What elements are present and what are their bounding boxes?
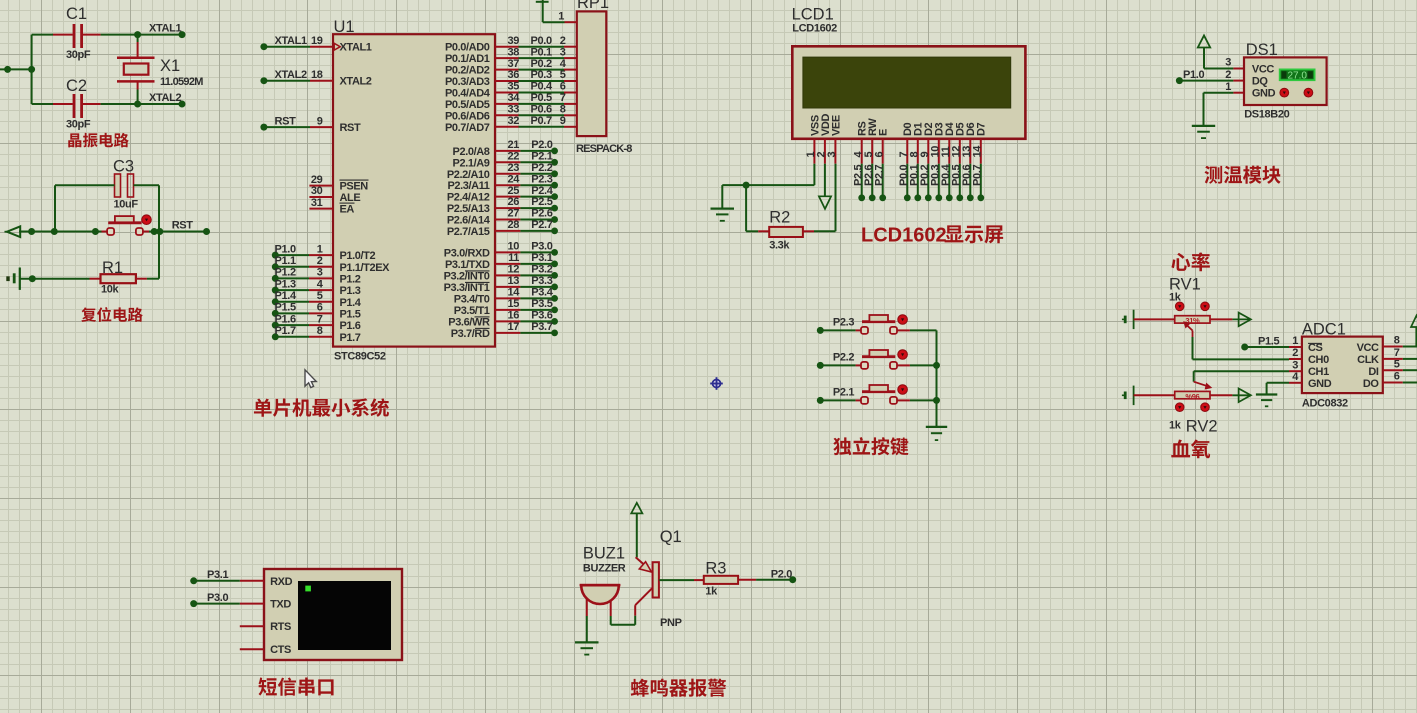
svg-text:P1.2: P1.2 <box>340 273 361 285</box>
svg-text:VCC: VCC <box>1252 63 1274 75</box>
svg-text:RESPACK-8: RESPACK-8 <box>576 143 632 155</box>
svg-text:30pF: 30pF <box>66 49 91 61</box>
svg-text:2: 2 <box>1225 69 1231 81</box>
svg-text:31: 31 <box>311 197 323 209</box>
svg-text:22: 22 <box>507 151 519 163</box>
svg-text:P1.1: P1.1 <box>275 255 296 267</box>
svg-text:P3.7/RD: P3.7/RD <box>451 328 490 340</box>
svg-text:GND: GND <box>1308 378 1332 390</box>
svg-text:BUZZER: BUZZER <box>583 563 626 575</box>
svg-text:P1.5: P1.5 <box>1258 335 1279 347</box>
svg-text:3: 3 <box>826 152 838 158</box>
svg-text:6: 6 <box>873 152 885 158</box>
svg-text:1k: 1k <box>1169 420 1182 432</box>
svg-text:P2.1/A9: P2.1/A9 <box>453 157 490 169</box>
svg-text:23: 23 <box>507 162 519 174</box>
svg-text:P2.2/A10: P2.2/A10 <box>447 169 490 181</box>
svg-text:P2.3: P2.3 <box>833 316 854 328</box>
svg-text:2: 2 <box>1292 347 1298 359</box>
svg-text:P2.6: P2.6 <box>531 208 552 220</box>
svg-text:6: 6 <box>560 81 566 93</box>
svg-text:P3.0/RXD: P3.0/RXD <box>444 247 490 259</box>
svg-text:P2.7: P2.7 <box>873 165 885 186</box>
svg-text:32: 32 <box>507 115 519 127</box>
svg-text:30pF: 30pF <box>66 119 91 131</box>
svg-text:26: 26 <box>507 196 519 208</box>
svg-text:P1.0/T2: P1.0/T2 <box>340 250 376 262</box>
svg-text:5: 5 <box>317 290 323 302</box>
svg-text:P0.3/AD3: P0.3/AD3 <box>445 76 490 88</box>
svg-text:25: 25 <box>507 185 519 197</box>
svg-text:P3.0: P3.0 <box>207 592 228 604</box>
svg-text:8: 8 <box>560 104 566 116</box>
svg-text:P3.2: P3.2 <box>531 264 552 276</box>
svg-text:P2.4/A12: P2.4/A12 <box>447 192 490 204</box>
svg-text:16: 16 <box>507 310 519 322</box>
svg-text:DI: DI <box>1368 366 1379 378</box>
svg-text:P0.0/AD0: P0.0/AD0 <box>445 42 490 54</box>
svg-text:28: 28 <box>507 219 519 231</box>
svg-text:10uF: 10uF <box>114 199 139 211</box>
svg-text:P1.7: P1.7 <box>340 332 361 344</box>
svg-text:XTAL2: XTAL2 <box>149 92 182 104</box>
svg-text:P3.0: P3.0 <box>531 241 552 253</box>
svg-text:6: 6 <box>317 302 323 314</box>
svg-text:37: 37 <box>507 58 519 70</box>
svg-text:P0.7: P0.7 <box>531 115 552 127</box>
svg-text:EA: EA <box>340 204 355 216</box>
svg-text:PSEN: PSEN <box>340 181 369 193</box>
svg-text:CTS: CTS <box>270 644 291 656</box>
svg-text:P2.7/A15: P2.7/A15 <box>447 226 490 238</box>
svg-text:13: 13 <box>507 275 519 287</box>
svg-text:P0.2: P0.2 <box>531 58 552 70</box>
svg-text:9: 9 <box>317 115 323 127</box>
svg-text:P0.7/AD7: P0.7/AD7 <box>445 122 490 134</box>
svg-text:34: 34 <box>507 92 520 104</box>
svg-text:P0.3: P0.3 <box>531 69 552 81</box>
svg-text:P0.1/AD1: P0.1/AD1 <box>445 53 490 65</box>
svg-text:E: E <box>878 129 890 136</box>
svg-text:P1.1/T2EX: P1.1/T2EX <box>340 262 391 274</box>
svg-text:XTAL1: XTAL1 <box>275 35 308 47</box>
svg-text:GND: GND <box>1252 88 1276 100</box>
svg-text:P2.1: P2.1 <box>531 151 552 163</box>
svg-text:P3.2/INT0: P3.2/INT0 <box>444 270 490 282</box>
svg-text:P1.7: P1.7 <box>275 325 296 337</box>
svg-text:P1.4: P1.4 <box>275 290 297 302</box>
svg-text:P1.3: P1.3 <box>275 278 296 290</box>
svg-text:R2: R2 <box>769 209 790 227</box>
svg-text:P2.5: P2.5 <box>531 196 552 208</box>
svg-text:3: 3 <box>1292 359 1298 371</box>
svg-text:XTAL1: XTAL1 <box>149 23 182 35</box>
svg-text:21: 21 <box>507 139 519 151</box>
svg-text:3: 3 <box>560 46 566 58</box>
svg-text:P2.2: P2.2 <box>531 162 552 174</box>
svg-text:5: 5 <box>1394 358 1400 370</box>
svg-text:P0.6: P0.6 <box>531 104 552 116</box>
svg-text:P0.6/AD6: P0.6/AD6 <box>445 110 490 122</box>
svg-text:P3.5: P3.5 <box>531 298 552 310</box>
svg-text:P3.1/TXD: P3.1/TXD <box>445 259 490 271</box>
svg-text:RST: RST <box>340 122 361 134</box>
svg-text:3.3k: 3.3k <box>769 240 790 252</box>
svg-text:8: 8 <box>317 325 323 337</box>
svg-text:P0.4/AD4: P0.4/AD4 <box>445 88 491 100</box>
svg-text:C3: C3 <box>113 158 134 176</box>
svg-text:C2: C2 <box>66 77 87 95</box>
svg-text:DS1: DS1 <box>1246 41 1278 59</box>
svg-text:11: 11 <box>508 252 519 264</box>
svg-text:P1.5: P1.5 <box>275 302 296 314</box>
svg-text:RTS: RTS <box>270 621 291 633</box>
svg-text:STC89C52: STC89C52 <box>334 351 386 363</box>
svg-text:1: 1 <box>558 11 564 23</box>
svg-text:P2.4: P2.4 <box>531 185 553 197</box>
svg-text:19: 19 <box>311 35 323 47</box>
svg-text:C1: C1 <box>66 5 87 23</box>
svg-text:P3.3/INT1: P3.3/INT1 <box>444 282 490 294</box>
svg-text:10k: 10k <box>101 284 120 296</box>
svg-text:P2.0/A8: P2.0/A8 <box>453 146 490 158</box>
svg-text:12: 12 <box>507 264 519 276</box>
svg-text:6: 6 <box>1394 371 1400 383</box>
svg-text:7: 7 <box>317 313 323 325</box>
svg-text:2: 2 <box>560 35 566 47</box>
svg-text:P2.6/A14: P2.6/A14 <box>447 215 491 227</box>
svg-text:P2.7: P2.7 <box>531 219 552 231</box>
svg-text:14: 14 <box>971 145 983 158</box>
svg-text:RXD: RXD <box>270 576 292 588</box>
svg-text:P2.2: P2.2 <box>833 351 854 363</box>
svg-text:1: 1 <box>1225 81 1231 93</box>
svg-text:1: 1 <box>1292 335 1298 347</box>
svg-text:DS18B20: DS18B20 <box>1244 109 1289 121</box>
svg-text:P0.0: P0.0 <box>531 35 552 47</box>
svg-text:P3.6/WR: P3.6/WR <box>448 316 490 328</box>
svg-text:35: 35 <box>507 81 519 93</box>
svg-text:P0.2/AD2: P0.2/AD2 <box>445 65 490 77</box>
svg-text:P1.2: P1.2 <box>275 267 296 279</box>
svg-text:P2.3/A11: P2.3/A11 <box>447 180 489 192</box>
svg-text:P1.0: P1.0 <box>1183 69 1204 81</box>
svg-text:RP1: RP1 <box>577 0 609 12</box>
svg-text:9: 9 <box>560 115 566 127</box>
svg-text:Q1: Q1 <box>660 528 682 546</box>
svg-text:TXD: TXD <box>270 599 291 611</box>
svg-text:XTAL2: XTAL2 <box>275 69 308 81</box>
svg-text:BUZ1: BUZ1 <box>583 545 625 563</box>
svg-text:PNP: PNP <box>660 617 682 629</box>
svg-text:LCD1: LCD1 <box>792 6 834 24</box>
svg-text:D7: D7 <box>976 122 988 136</box>
svg-text:P2.5/A13: P2.5/A13 <box>447 203 490 215</box>
svg-text:VEE: VEE <box>830 115 842 136</box>
svg-text:P3.1: P3.1 <box>531 252 552 264</box>
svg-text:P3.4: P3.4 <box>531 287 553 299</box>
svg-text:P0.4: P0.4 <box>531 81 553 93</box>
svg-text:R1: R1 <box>102 259 123 277</box>
svg-text:17: 17 <box>507 321 519 333</box>
svg-text:18: 18 <box>311 69 323 81</box>
svg-text:P1.6: P1.6 <box>275 313 296 325</box>
svg-text:P3.6: P3.6 <box>531 310 552 322</box>
svg-text:P3.7: P3.7 <box>531 321 552 333</box>
svg-text:P1.3: P1.3 <box>340 285 361 297</box>
svg-text:P0.7: P0.7 <box>971 165 983 186</box>
svg-text:3: 3 <box>317 267 323 279</box>
svg-text:14: 14 <box>507 287 520 299</box>
svg-text:R3: R3 <box>705 560 726 578</box>
svg-text:27.0: 27.0 <box>1287 71 1307 82</box>
svg-text:P2.3: P2.3 <box>531 173 552 185</box>
svg-text:CH0: CH0 <box>1308 354 1329 366</box>
svg-text:RST: RST <box>275 115 297 127</box>
svg-text:RST: RST <box>172 219 194 231</box>
svg-text:LCD1602: LCD1602 <box>792 23 837 35</box>
svg-text:U1: U1 <box>334 18 355 36</box>
svg-text:33: 33 <box>507 104 519 116</box>
svg-text:XTAL1: XTAL1 <box>340 42 372 54</box>
svg-text:1: 1 <box>317 243 323 255</box>
svg-text:LCD1602: LCD1602 <box>861 225 947 247</box>
svg-text:11.0592M: 11.0592M <box>160 76 203 88</box>
svg-text:XTAL2: XTAL2 <box>340 76 372 88</box>
svg-text:P3.4/T0: P3.4/T0 <box>454 293 490 305</box>
svg-text:ADC0832: ADC0832 <box>1302 398 1348 410</box>
svg-text:P3.5/T1: P3.5/T1 <box>454 305 490 317</box>
svg-text:P1.4: P1.4 <box>340 297 362 309</box>
svg-text:P2.0: P2.0 <box>531 139 552 151</box>
svg-text:30: 30 <box>311 185 323 197</box>
svg-text:DQ: DQ <box>1252 75 1269 87</box>
svg-text:P1.6: P1.6 <box>340 320 361 332</box>
svg-text:1k: 1k <box>705 586 718 598</box>
svg-text:27: 27 <box>507 208 519 220</box>
svg-text:%96: %96 <box>1185 392 1199 401</box>
svg-text:36: 36 <box>507 69 519 81</box>
svg-text:10: 10 <box>507 241 519 253</box>
svg-text:24: 24 <box>507 173 520 185</box>
svg-text:ALE: ALE <box>340 192 361 204</box>
svg-text:CLK: CLK <box>1357 354 1379 366</box>
svg-text:VCC: VCC <box>1357 342 1379 354</box>
svg-text:P3.3: P3.3 <box>531 275 552 287</box>
svg-text:P1.0: P1.0 <box>275 243 296 255</box>
svg-text:P2.1: P2.1 <box>833 386 854 398</box>
svg-text:P2.0: P2.0 <box>771 568 792 580</box>
svg-text:P1.5: P1.5 <box>340 308 361 320</box>
svg-text:39: 39 <box>507 35 519 47</box>
svg-text:DO: DO <box>1363 378 1380 390</box>
svg-text:RV2: RV2 <box>1186 418 1218 436</box>
svg-text:2: 2 <box>317 255 323 267</box>
svg-text:15: 15 <box>507 298 519 310</box>
svg-text:P0.1: P0.1 <box>531 46 552 58</box>
svg-text:P0.5/AD5: P0.5/AD5 <box>445 99 490 111</box>
svg-text:5: 5 <box>560 69 566 81</box>
svg-text:P3.1: P3.1 <box>207 569 228 581</box>
svg-text:7: 7 <box>1394 347 1400 359</box>
svg-text:X1: X1 <box>160 57 180 75</box>
svg-text:3: 3 <box>1225 57 1231 69</box>
svg-text:7: 7 <box>560 92 566 104</box>
svg-text:38: 38 <box>507 46 519 58</box>
svg-text:8: 8 <box>1394 335 1400 347</box>
svg-text:P0.5: P0.5 <box>531 92 552 104</box>
svg-text:CH1: CH1 <box>1308 366 1329 378</box>
svg-text:29: 29 <box>311 174 323 186</box>
